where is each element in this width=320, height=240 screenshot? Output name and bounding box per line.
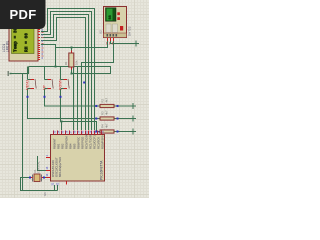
wire DHT22 pin2 to right terminal: [111, 40, 137, 44]
U1 left pin numbers: [46, 155, 49, 177]
wire crystal right to MCU: [43, 177, 50, 179]
svg-text:R1: R1: [64, 61, 68, 65]
svg-text:PIC16F877A: PIC16F877A: [100, 160, 104, 180]
DHT22 label windows: [106, 24, 111, 33]
terminal T4 R3 right: [133, 116, 136, 122]
svg-text:U2: U2: [99, 30, 103, 34]
junction dot on data bundle: [83, 82, 85, 84]
U1 top pin stubs: [54, 131, 102, 135]
terminal T5 R4 right: [133, 129, 136, 135]
DHT22 button plus: [117, 12, 120, 15]
DHT22 button minus: [117, 17, 120, 20]
junction X1 left: [29, 177, 31, 179]
wire DHT22 pin3 down to MCU: [82, 40, 114, 130]
terminal T1 left: [8, 71, 12, 76]
junction SW1 node: [27, 96, 29, 98]
junction SW2 node: [44, 96, 46, 98]
junction dot R1 bottom: [71, 73, 73, 75]
wire button SW3 drop to R4 row: [61, 89, 101, 132]
push button SW2 UP: [43, 67, 54, 91]
U1 top pin names: [53, 132, 105, 149]
resistor R4 horizontal: [100, 123, 114, 133]
LCD1 LM016L display module: [9, 27, 38, 62]
svg-text:88: 88: [109, 15, 113, 19]
wire left terminal into bus A: [10, 67, 29, 74]
svg-text:PDF: PDF: [10, 7, 37, 22]
svg-text:UP: UP: [43, 85, 47, 90]
LCD1 pin numbers and names: [42, 30, 44, 58]
DHT22 pin name marks: [107, 42, 113, 45]
U1 top pin numbers: [54, 130, 105, 133]
LCD1 reference label: [2, 40, 10, 52]
svg-text:10k: 10k: [75, 60, 79, 65]
svg-text:RD0/PSP0: RD0/PSP0: [101, 135, 105, 149]
wire resistor R2 right to terminal: [114, 105, 133, 107]
terminal T2 sensor right: [136, 41, 139, 47]
wire LCD enable to node: [41, 45, 56, 48]
terminal T3 R2 right: [133, 103, 136, 109]
crystal X1: [31, 161, 43, 182]
wire resistor R4 right to terminal: [114, 131, 133, 133]
wire LCD D5: [41, 15, 89, 131]
svg-text:RH = 60: RH = 60: [24, 33, 30, 52]
junction dot SW3 node: [61, 121, 63, 123]
svg-text:X1: X1: [33, 169, 37, 173]
svg-text:CRYSTAL: CRYSTAL: [37, 161, 41, 173]
wire resistor R1 bottom: [71, 67, 73, 74]
svg-text:4k7: 4k7: [105, 98, 109, 103]
U1 left pin stubs: [46, 158, 51, 178]
wire bus A drop 1: [73, 67, 75, 131]
U1 bottom pin stub: [66, 182, 68, 185]
schematic sheet background: [0, 0, 149, 198]
wire MCU vss down: [54, 185, 56, 191]
wire bus A drop 2: [77, 67, 79, 131]
DHT22 button set: [120, 26, 123, 31]
wire button SW1 drop to R3 row: [28, 89, 101, 119]
resistor R3 horizontal: [100, 110, 114, 120]
svg-text:4k7: 4k7: [105, 110, 109, 115]
wire stub MCU pin from SW3 node: [61, 122, 63, 131]
svg-text:LM016L: LM016L: [6, 40, 10, 52]
svg-text:4k7: 4k7: [105, 123, 109, 128]
wire bus A horizontal: [29, 67, 111, 74]
junction dot bus A data: [55, 66, 57, 68]
wire crystal left to ground: [21, 178, 32, 191]
LCD1 pins: [38, 30, 40, 60]
microcontroller U1 PIC16F877A: [51, 135, 105, 182]
svg-text:DHT22: DHT22: [128, 26, 132, 36]
U1 left pin names: [51, 157, 62, 177]
DHT22 pins: [108, 38, 114, 41]
wire ground run down left: [23, 74, 58, 191]
wire resistor R1 top: [71, 48, 73, 54]
wire LCD D4 inner: [41, 18, 86, 131]
wire MCU vdd down: [57, 185, 59, 191]
junction R4 right: [117, 131, 119, 133]
junction R3 right: [117, 118, 119, 120]
svg-text:MCLR/Vpp/THV: MCLR/Vpp/THV: [58, 157, 62, 177]
wire button SW2 drop to R2 row: [45, 89, 101, 106]
DHT22 pin strip: [104, 33, 127, 38]
svg-text:Temp = 39: Temp = 39: [13, 27, 19, 52]
wire LCD D6: [41, 12, 92, 131]
PDF badge overlay: [0, 0, 46, 29]
junction R2 right: [117, 105, 119, 107]
junction SW3 node: [60, 96, 62, 98]
junction R3 left: [95, 118, 97, 120]
resistor R2 horizontal: [100, 98, 114, 108]
push button SW3 DOWN: [59, 67, 70, 91]
U1 bottom pin numbers: [52, 182, 60, 185]
junction dots blue: [27, 96, 119, 179]
junction R2 left: [95, 105, 97, 107]
resistor R1 pin stubs: [71, 51, 73, 70]
DHT22 sensor U2: [104, 7, 127, 38]
svg-text:U1: U1: [43, 192, 47, 196]
junction dot R1 top: [71, 47, 73, 49]
resistor R1 vertical: [64, 53, 79, 67]
wire resistor R3 right to terminal: [114, 118, 133, 120]
wire LCD D7 outer: [41, 9, 95, 131]
wire DHT22 data with pull-up: [56, 40, 108, 67]
junction R4 left: [95, 131, 97, 133]
push button SW1 MENU: [26, 67, 37, 91]
wire MCU osc feed: [38, 156, 51, 171]
junction X1 right: [43, 177, 45, 179]
